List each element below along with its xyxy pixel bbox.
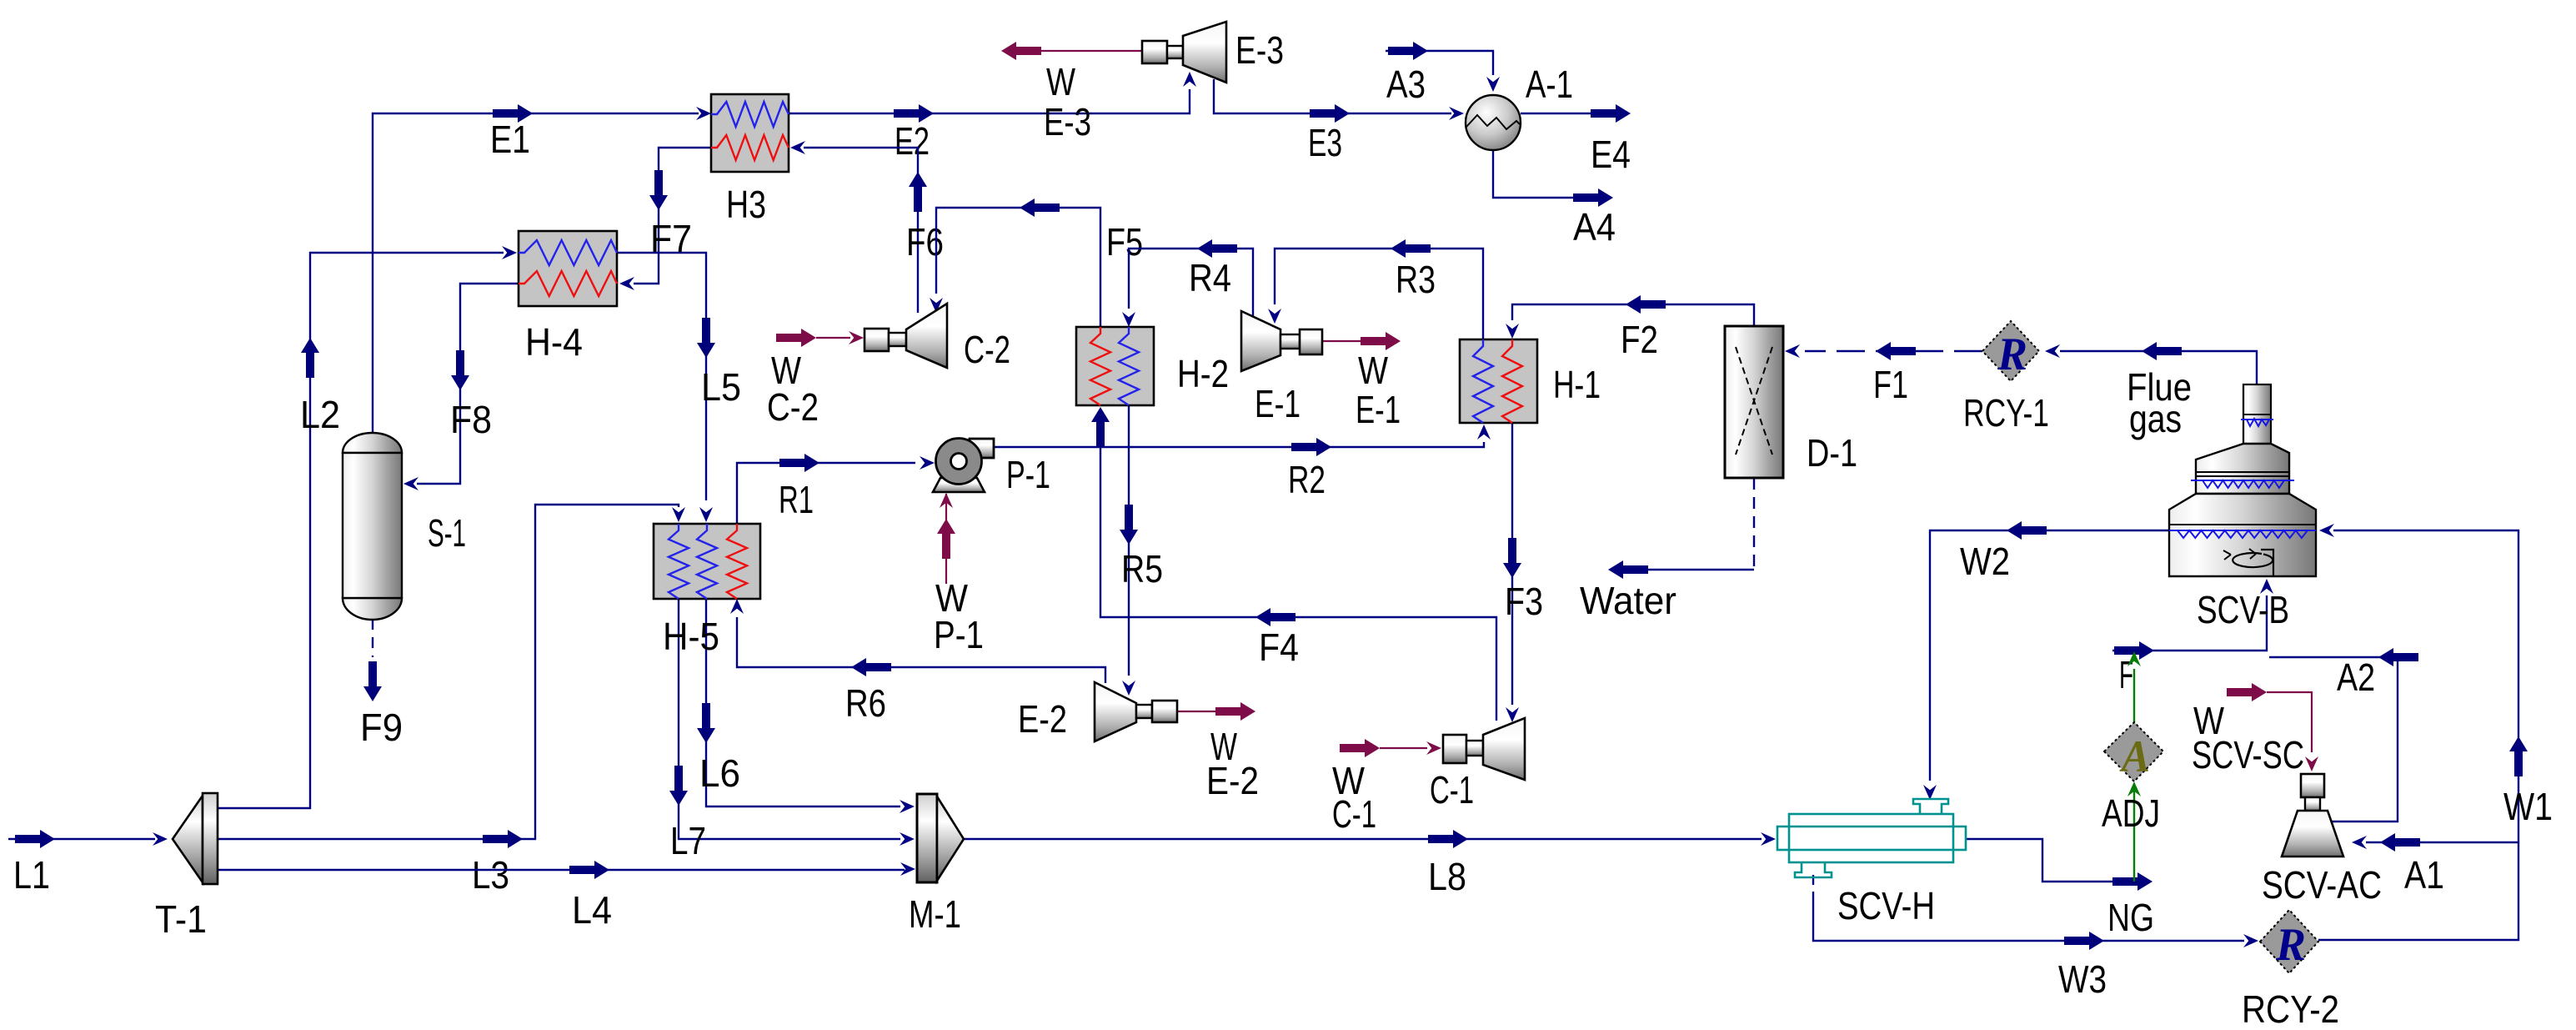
svg-text:F8: F8	[450, 398, 492, 441]
stream F2	[1512, 304, 1754, 326]
svg-text:R1: R1	[779, 478, 814, 521]
svg-text:A1: A1	[2404, 853, 2444, 897]
stream L2	[218, 253, 504, 808]
stream R1	[737, 463, 915, 524]
svg-text:SCV-H: SCV-H	[1837, 884, 1935, 927]
svg-text:F1: F1	[1873, 363, 1908, 406]
stream R4	[1129, 249, 1253, 316]
energy stream W E-2	[1177, 711, 1215, 712]
energy stream W E-1	[1322, 340, 1361, 342]
energy stream W P-1	[945, 494, 947, 584]
svg-text:R6: R6	[845, 681, 886, 725]
compressor C-2	[865, 329, 889, 351]
svg-text:L7: L7	[670, 819, 706, 862]
svg-text:F4: F4	[1259, 626, 1299, 669]
svg-text:P-1: P-1	[934, 613, 984, 656]
stream R2	[994, 442, 1484, 447]
svg-text:E-1: E-1	[1255, 382, 1301, 425]
svg-text:F9: F9	[360, 706, 403, 749]
svg-text:E3: E3	[1308, 121, 1342, 164]
svg-text:H3: H3	[726, 183, 766, 226]
svg-text:Water: Water	[1580, 579, 1676, 622]
svg-text:ADJ: ADJ	[2102, 791, 2160, 835]
stream F4	[1100, 433, 1496, 721]
stream A4	[1493, 150, 1573, 198]
stream F9	[372, 619, 373, 657]
svg-text:A2: A2	[2337, 656, 2375, 699]
svg-text:M-1: M-1	[909, 892, 961, 936]
energy stream W E-3	[1038, 50, 1142, 52]
separator S-1	[343, 433, 402, 453]
svg-text:E1: E1	[490, 118, 530, 161]
energy stream W C-2	[816, 337, 850, 339]
air cooler A-1	[1466, 95, 1521, 150]
recycle RCY-2	[2260, 910, 2318, 973]
svg-text:C-2: C-2	[767, 385, 819, 429]
svg-text:SCV-B: SCV-B	[2197, 588, 2289, 631]
svg-text:SCV-AC: SCV-AC	[2262, 863, 2382, 907]
svg-text:H-5: H-5	[663, 615, 719, 658]
stream F7	[634, 148, 711, 284]
energy stream W SCV-SC	[2267, 692, 2312, 752]
svg-text:R: R	[1997, 329, 2027, 380]
stream L6	[706, 599, 900, 806]
stream Water	[1753, 478, 1755, 570]
svg-text:L8: L8	[1428, 855, 1466, 898]
vaporizer SCV-B	[2243, 384, 2271, 444]
stream L5	[617, 253, 706, 500]
svg-text:L5: L5	[701, 365, 741, 409]
svg-text:H-4: H-4	[525, 320, 583, 364]
svg-text:S-1: S-1	[428, 511, 466, 555]
svg-text:RCY-1: RCY-1	[1963, 391, 2049, 435]
stream L8	[964, 838, 1762, 840]
stream F8	[417, 284, 519, 484]
svg-text:H-2: H-2	[1177, 352, 1229, 395]
stream F5	[936, 208, 1100, 328]
svg-text:L3: L3	[472, 853, 509, 897]
stream F	[2112, 595, 2267, 651]
svg-text:E-3: E-3	[1235, 28, 1284, 72]
svg-text:R4: R4	[1189, 256, 1231, 299]
svg-text:SCV-SC: SCV-SC	[2192, 733, 2304, 776]
svg-text:E-1: E-1	[1356, 388, 1401, 431]
svg-text:L4: L4	[572, 888, 612, 932]
svg-text:C-1: C-1	[1332, 792, 1376, 836]
stream R6	[737, 617, 1105, 683]
svg-text:E-2: E-2	[1018, 697, 1067, 741]
adjust signal ADJ to F	[2133, 669, 2135, 726]
svg-text:C-2: C-2	[964, 328, 1010, 371]
svg-text:W3: W3	[2058, 957, 2107, 1001]
mixer M-1	[917, 794, 937, 882]
svg-text:D-1: D-1	[1807, 431, 1857, 475]
svg-text:E4: E4	[1591, 133, 1631, 176]
svg-text:F2: F2	[1621, 318, 1658, 361]
stream L3	[218, 505, 679, 839]
pump P-1	[970, 439, 994, 458]
expander E-1	[1241, 311, 1280, 371]
stream E4	[1521, 113, 1591, 114]
svg-text:W: W	[1358, 349, 1388, 392]
svg-text:W2: W2	[1960, 540, 2010, 583]
svg-text:A4: A4	[1573, 205, 1616, 249]
svg-text:C-1: C-1	[1430, 768, 1474, 811]
heater SCV-H	[1777, 799, 1966, 877]
stream F3	[1511, 423, 1513, 705]
stream F6	[804, 148, 918, 313]
svg-text:W1: W1	[2503, 785, 2553, 828]
stream Flue gas	[2060, 351, 2257, 384]
svg-text:E-3: E-3	[1044, 100, 1091, 143]
svg-text:L1: L1	[13, 853, 50, 897]
stream E1	[373, 113, 699, 434]
svg-text:A-1: A-1	[1526, 63, 1573, 106]
stream A3	[1386, 51, 1493, 75]
heat exchanger H-5	[654, 524, 760, 599]
svg-text:F3: F3	[1505, 580, 1543, 623]
heat exchanger H-4	[519, 231, 617, 306]
stream NG	[1966, 839, 2112, 882]
svg-text:L6: L6	[699, 751, 740, 795]
expander E-2	[1095, 682, 1136, 741]
compressor C-1	[1443, 735, 1466, 763]
stream L7	[679, 599, 900, 839]
stream W1	[2318, 530, 2518, 940]
svg-text:R2: R2	[1288, 458, 1326, 501]
svg-text:T-1: T-1	[155, 897, 207, 941]
stream E2	[789, 89, 1190, 113]
svg-text:R5: R5	[1121, 547, 1163, 590]
contactor D-1	[1725, 326, 1783, 478]
air blower SCV-AC	[2301, 774, 2324, 797]
adjust signal NG to ADJ	[2133, 789, 2135, 882]
svg-text:P-1: P-1	[1006, 453, 1050, 496]
svg-text:H-1: H-1	[1553, 363, 1601, 406]
stream A1	[2366, 842, 2518, 843]
svg-text:E-2: E-2	[1206, 759, 1259, 802]
stream R3	[1275, 249, 1483, 339]
tee T-1	[173, 796, 203, 882]
adjust ADJ	[2104, 722, 2163, 781]
stream F1	[1805, 350, 1982, 352]
stream L1	[8, 838, 155, 840]
stream W2	[1930, 530, 2171, 781]
stream R5	[1128, 405, 1130, 676]
svg-text:E2: E2	[895, 119, 930, 163]
svg-text:W: W	[1046, 60, 1075, 103]
svg-text:A: A	[2119, 731, 2150, 781]
heat exchanger H3	[711, 94, 789, 172]
stream L4	[218, 869, 905, 871]
stream W3	[1812, 875, 1814, 894]
stream E3	[1214, 79, 1451, 113]
svg-text:NG: NG	[2107, 896, 2154, 939]
svg-text:RCY-2: RCY-2	[2242, 987, 2339, 1030]
energy stream W C-1	[1380, 747, 1427, 749]
svg-text:R: R	[2275, 919, 2306, 971]
svg-text:F5: F5	[1106, 220, 1143, 264]
heat exchanger H-2	[1076, 327, 1154, 405]
stream A2	[2269, 657, 2398, 821]
svg-text:A3: A3	[1386, 63, 1426, 106]
heat exchanger H-1	[1460, 339, 1537, 423]
svg-text:L2: L2	[300, 393, 340, 436]
recycle RCY-1	[1982, 321, 2039, 381]
svg-text:F6: F6	[906, 220, 944, 264]
svg-text:gas: gas	[2129, 397, 2182, 440]
expander E-3	[1142, 41, 1167, 63]
svg-text:R3: R3	[1396, 258, 1436, 301]
